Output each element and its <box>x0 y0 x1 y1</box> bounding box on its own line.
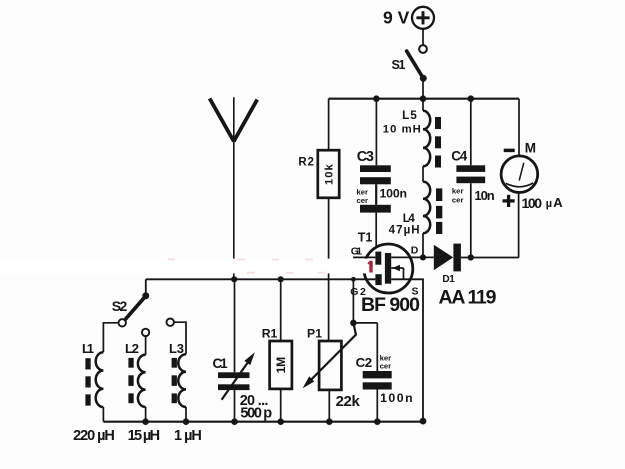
svg-text:ker: ker <box>452 186 464 195</box>
svg-text:L1: L1 <box>82 341 94 356</box>
svg-text:220 µH: 220 µH <box>73 428 115 444</box>
wire C4 to diode node <box>470 183 472 257</box>
watermark pink remnants <box>168 258 325 273</box>
svg-text:47µH: 47µH <box>389 225 420 237</box>
svg-text:P1: P1 <box>307 326 322 340</box>
wire down to S2 <box>145 279 147 293</box>
svg-text:G1: G1 <box>351 246 362 258</box>
svg-text:C2: C2 <box>356 355 373 370</box>
svg-text:100n: 100n <box>380 391 413 405</box>
node diode/C4/meter junction <box>468 254 474 260</box>
switch S2 <box>112 292 150 320</box>
node R1 junction <box>278 276 284 282</box>
svg-text:C4: C4 <box>451 148 468 163</box>
inductor L1 <box>73 323 118 444</box>
switch S1 <box>392 45 427 82</box>
svg-text:9 V: 9 V <box>383 8 410 28</box>
svg-text:T1: T1 <box>358 230 373 244</box>
inductor L3 <box>169 322 202 444</box>
wire L2 to bottom bus <box>145 407 147 422</box>
wire tuned-circuit node line to G2 <box>146 278 376 280</box>
svg-text:1M: 1M <box>274 357 288 374</box>
wire L1 to bottom bus <box>102 407 104 422</box>
antenna <box>210 97 258 279</box>
wire L4 to drain node <box>422 233 424 257</box>
svg-text:1 µH: 1 µH <box>174 428 202 444</box>
wire source <box>391 279 423 421</box>
svg-text:C1: C1 <box>213 356 229 371</box>
svg-text:D: D <box>411 244 419 256</box>
svg-text:ker: ker <box>357 188 369 197</box>
svg-text:A: A <box>553 195 563 210</box>
node drain junction <box>420 254 426 260</box>
potentiometer P1 <box>303 323 361 422</box>
wire G2 node to C2 <box>350 279 377 371</box>
capacitor C1 variable <box>213 279 273 421</box>
meter M <box>501 99 563 258</box>
node antenna/C1 junction <box>231 276 237 282</box>
inductor L4 <box>389 182 443 237</box>
svg-text:S2: S2 <box>112 298 128 314</box>
svg-text:AA 119: AA 119 <box>439 286 497 308</box>
node junction dots on bottom bus <box>142 418 426 425</box>
svg-text:R1: R1 <box>262 326 278 340</box>
svg-text:C3: C3 <box>357 149 374 165</box>
svg-text:S1: S1 <box>392 58 406 72</box>
wire R2 bottom to P1 top <box>328 198 330 341</box>
watermark red 1 <box>367 261 372 273</box>
wire bottom bus <box>103 421 423 423</box>
svg-text:M: M <box>525 140 536 155</box>
svg-text:L3: L3 <box>169 341 184 356</box>
wire top bus <box>329 98 519 100</box>
wire C3 to T1 gate1 <box>375 213 377 247</box>
svg-text:10n: 10n <box>474 188 494 203</box>
svg-text:10 mH: 10 mH <box>383 124 421 136</box>
svg-text:L4: L4 <box>403 213 416 225</box>
resistor R2 <box>298 99 339 198</box>
svg-text:D1: D1 <box>442 274 455 285</box>
svg-text:15 µH: 15 µH <box>128 428 161 444</box>
wire drain to diode <box>391 256 434 258</box>
svg-text:100n: 100n <box>380 187 408 201</box>
node L3 throw contact <box>167 319 174 326</box>
watermark white band <box>0 259 375 274</box>
svg-text:22k: 22k <box>336 393 361 410</box>
svg-text:BF 900: BF 900 <box>361 294 420 316</box>
svg-text:cer: cer <box>452 196 464 205</box>
svg-text:100: 100 <box>522 195 543 211</box>
svg-text:500 p: 500 p <box>240 406 272 422</box>
svg-text:cer: cer <box>380 361 392 370</box>
node junction dots on top bus <box>373 95 474 102</box>
capacitor C3 <box>357 99 408 213</box>
node L1 throw contact <box>119 319 126 326</box>
svg-text:L2: L2 <box>125 341 139 356</box>
capacitor C4 <box>451 99 495 205</box>
capacitor C2 <box>356 353 413 421</box>
node L2 throw contact <box>142 329 149 336</box>
transistor T1 BF900 <box>350 230 420 315</box>
svg-text:µ: µ <box>546 198 552 210</box>
svg-text:cer: cer <box>357 196 369 205</box>
resistor R1 <box>262 279 292 421</box>
svg-text:L5: L5 <box>402 108 417 122</box>
svg-text:10k: 10k <box>324 163 336 184</box>
wire battery to S1 <box>422 29 424 45</box>
wire L5 to L4 <box>422 166 424 181</box>
diode D1 <box>434 244 497 309</box>
wire diode to meter <box>461 257 519 259</box>
wire L3 to bottom bus <box>185 407 187 422</box>
svg-text:R2: R2 <box>298 157 314 169</box>
wire S1 to top bus <box>422 78 424 98</box>
node G2 branch junction <box>351 277 356 282</box>
inductor L2 <box>125 336 160 444</box>
battery 9V <box>383 7 434 29</box>
inductor L5 <box>383 99 441 168</box>
